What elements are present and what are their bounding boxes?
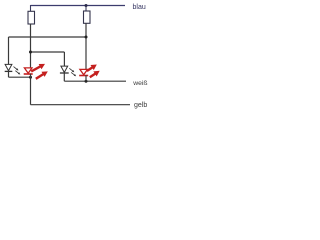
wire R1 top stub [30,5,32,11]
LED D2 red arrow 2 [36,74,44,79]
wire weiss rail horizontal [64,80,126,82]
wire LED3 cathode to weiss rail [63,73,65,81]
node junction dot gelb rail [29,76,32,79]
LED D4 red cathode bar [79,75,88,77]
wire gelb rail horizontal upper [9,76,31,78]
LED D3 triangle [61,66,68,72]
wire LED4 cathode stub [85,75,87,81]
node junction dot R2 net [85,36,88,39]
LED D3 arrow 2 [71,72,75,75]
LED D3 cathode bar [60,72,69,74]
wire LED3 anode drop [63,52,65,66]
LED D2 red arrow 1 [31,64,48,79]
resistor R2 [84,11,91,23]
LED D4 red arrow 1 [87,65,100,78]
wire R1 bottom down to LED2 [30,24,32,68]
LED D1 cathode bar [5,70,13,72]
svg-text:weiß: weiß [132,80,147,87]
LED D3 arrow 1 [69,68,76,76]
LED D1 arrow 2 [15,71,19,74]
wire R2 top stub [85,6,87,12]
wire gelb vertical drop [30,77,32,105]
wire blau horizontal top [31,5,126,7]
wire horizontal net R2-to-LED1 [9,36,87,38]
svg-text:blau: blau [133,4,146,11]
wire LED1 anode drop [8,37,10,65]
wire R2 bottom down to LED4 [85,23,87,69]
wire LED2 cathode stub [30,74,32,78]
LED D4 red arrow 2 [90,73,96,77]
svg-text:gelb: gelb [134,102,147,109]
LED D2 red cathode bar [24,73,33,75]
node junction dot on blau line [85,4,88,7]
wire horizontal net R1-to-LED3 [31,51,65,53]
resistor R1 [28,11,35,24]
LED D1 triangle [5,64,12,70]
LED D2 red triangle [24,68,32,73]
LED D4 red triangle [80,69,88,74]
LED D1 arrow 1 [14,67,21,75]
node junction dot weiss rail [85,80,88,83]
node junction dot R1 net [29,51,32,54]
wire LED1 cathode to gelb rail [8,71,10,77]
wire gelb rail bottom [31,104,131,106]
